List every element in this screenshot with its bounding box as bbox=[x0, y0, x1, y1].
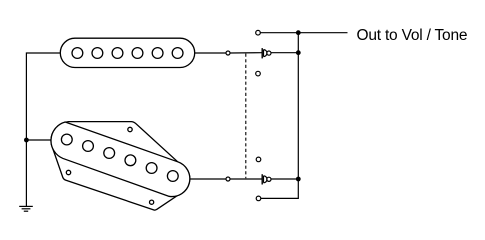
svg-text:Out to Vol / Tone: Out to Vol / Tone bbox=[357, 27, 468, 44]
